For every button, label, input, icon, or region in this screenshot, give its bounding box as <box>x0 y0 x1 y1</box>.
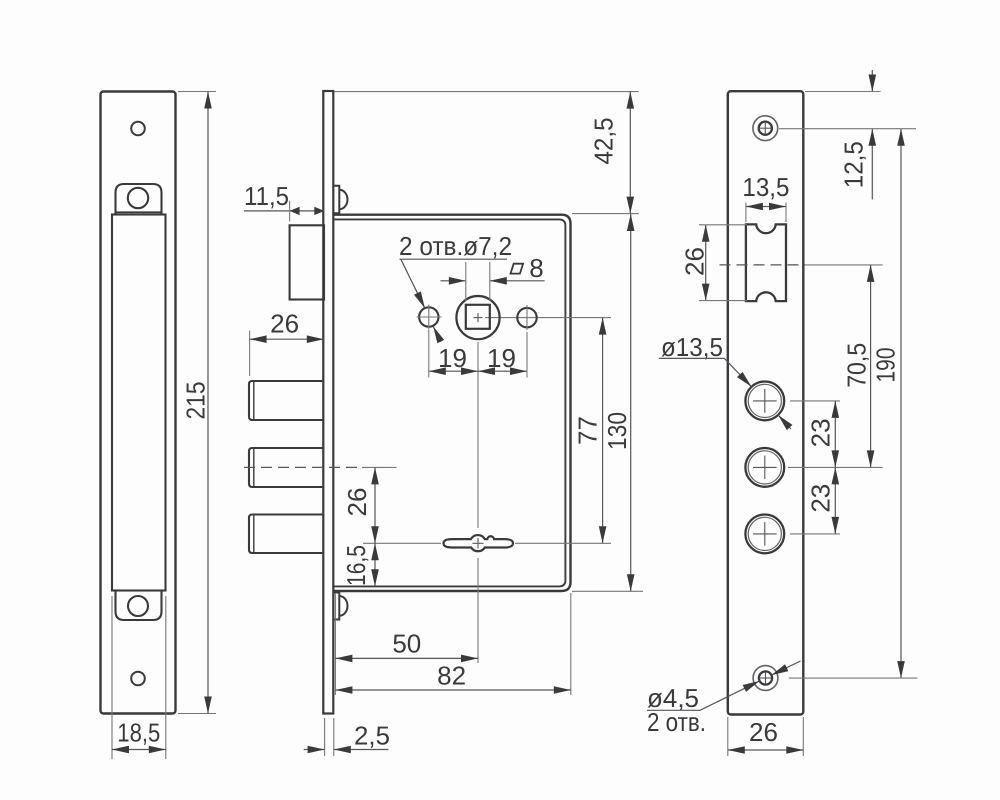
bolt hole 1 (D13,5) <box>745 382 784 421</box>
svg-text:18,5: 18,5 <box>117 718 160 748</box>
lower latch tab <box>116 591 162 621</box>
bottom countersunk screw hole <box>753 666 778 691</box>
svg-text:42,5: 42,5 <box>588 118 618 165</box>
bolt hole 3 (D13,5) <box>745 515 784 554</box>
upper latch tab hole <box>128 188 148 208</box>
centerline extension of middle bolt (solid) <box>362 466 397 468</box>
dimension 26 (plate width bottom) <box>728 717 804 756</box>
extension line hole3 center <box>790 533 840 535</box>
keyhole slot <box>444 535 514 551</box>
upper auxiliary latch bump <box>334 186 348 213</box>
vertical centerline through spindle and keyhole <box>477 342 479 663</box>
horizontal centerline of keyhole <box>363 542 611 544</box>
dimension 12,5 (arrows outside) <box>839 70 873 199</box>
fixing screw hole left <box>417 305 442 330</box>
dimension 19 right <box>478 343 527 373</box>
dimension 13,5 (cutout width) <box>742 172 789 222</box>
extension line body bottom for 130 <box>572 590 643 592</box>
faceplate strip (edge view) <box>323 91 333 714</box>
extension line left for 18,5 <box>111 596 113 759</box>
svg-text:19: 19 <box>487 343 516 373</box>
svg-text:19: 19 <box>438 343 467 373</box>
upper latch tab bottom edge <box>116 211 162 213</box>
dimension 26 vertical (bolt2 to keyhole) <box>342 467 375 543</box>
fixing screw hole right <box>517 305 536 330</box>
auxiliary bolt housing box <box>290 225 324 299</box>
dimension 23 lower <box>806 467 836 534</box>
extension line right for 18,5 <box>165 596 167 759</box>
keyhole center cross <box>473 538 484 549</box>
extension line hole2 center <box>788 466 883 468</box>
dimension 19 left <box>429 343 478 373</box>
svg-text:8: 8 <box>529 253 543 283</box>
svg-text:2 отв.: 2 отв. <box>647 707 706 737</box>
extension line top of strip for 42,5 <box>334 91 639 93</box>
deadbolt pin 1 <box>249 381 324 420</box>
dimension 70,5 <box>842 265 872 468</box>
svg-text:12,5: 12,5 <box>839 141 869 188</box>
svg-text:23: 23 <box>806 484 836 513</box>
dimension 11,5 <box>244 181 324 221</box>
svg-text:70,5: 70,5 <box>842 343 872 388</box>
svg-text:ø13,5: ø13,5 <box>661 332 723 362</box>
bottom screw hole (left view) <box>131 672 145 686</box>
svg-text:26: 26 <box>749 717 778 747</box>
svg-text:50: 50 <box>392 629 421 659</box>
extension line below right hole <box>526 332 528 378</box>
svg-text:13,5: 13,5 <box>742 172 789 202</box>
dimension 42,5 <box>588 92 630 214</box>
extension line below left hole <box>428 330 430 378</box>
dimension 2,5 (faceplate thickness) <box>304 718 390 756</box>
deadbolt pin 2 <box>249 448 324 487</box>
svg-text:190: 190 <box>870 348 900 383</box>
extension line top screw hole center <box>779 128 916 130</box>
svg-text:23: 23 <box>806 418 836 447</box>
svg-text:26: 26 <box>342 488 372 517</box>
extension line body top for 42,5/130 <box>572 213 639 215</box>
svg-text:16,5: 16,5 <box>341 545 371 586</box>
svg-text:2,5: 2,5 <box>354 721 390 751</box>
svg-text:26: 26 <box>270 309 299 339</box>
upper latch tab <box>116 184 162 215</box>
dashed centerline of middle bolt <box>244 466 362 468</box>
faceplate outer plate <box>101 92 176 714</box>
lower latch tab hole <box>128 596 148 616</box>
horizontal centerline through screw holes <box>485 317 611 319</box>
dimension 23 upper <box>806 401 836 468</box>
faceplate front plate <box>728 91 804 714</box>
lock case lid inner outline <box>334 219 565 586</box>
top countersunk screw hole <box>753 116 778 141</box>
dimension 190 <box>870 129 901 678</box>
svg-text:82: 82 <box>437 661 466 691</box>
spindle boss circle <box>456 296 499 339</box>
dimension 77 <box>572 318 602 544</box>
extension line top for 215 <box>178 91 216 93</box>
top screw hole (left view) <box>131 122 145 136</box>
latch cutout window with relief arcs <box>746 224 786 301</box>
lock body side (long inner rectangle) <box>112 215 166 591</box>
bolt hole 2 (D13,5) <box>745 448 784 487</box>
dimension 26 (bolt protrusion) <box>250 309 324 376</box>
spindle center cross <box>474 313 483 322</box>
dimension 215 <box>181 92 211 714</box>
lock case outer outline <box>334 215 571 591</box>
extension line bottom for 215 <box>178 713 216 715</box>
dimension 50 <box>335 629 478 659</box>
lower auxiliary latch bump <box>334 593 348 620</box>
dashed centerline of cutout <box>720 264 806 266</box>
svg-text:77: 77 <box>572 416 602 445</box>
svg-text:26: 26 <box>679 247 709 276</box>
dimension 26 (cutout height) <box>679 225 747 301</box>
svg-text:11,5: 11,5 <box>244 181 289 211</box>
svg-text:130: 130 <box>602 412 632 450</box>
solid centerline extension of cutout <box>805 264 883 266</box>
label D4,5 / 2 otv. with leader <box>647 661 801 737</box>
svg-text:2 отв.ø7,2: 2 отв.ø7,2 <box>399 231 512 261</box>
extension lines below body for 50/82 <box>335 593 570 695</box>
dimension 130 <box>602 214 632 591</box>
extension line hole1 center <box>790 400 840 402</box>
dimension 16,5 (keyhole to body bottom) <box>341 543 375 586</box>
extension line bottom screw hole center <box>789 677 918 679</box>
dimension 8 (square) <box>440 253 544 301</box>
extension line plate top right <box>805 91 881 93</box>
label D13,5 with leader <box>659 332 791 429</box>
square spindle hole 8x8 <box>466 305 490 329</box>
svg-text:215: 215 <box>181 382 211 420</box>
dimension 18,5 <box>112 718 166 750</box>
deadbolt pin 3 <box>249 515 324 554</box>
dimension 82 <box>335 661 570 691</box>
label 2 otv. D7,2 with leader <box>399 231 512 342</box>
